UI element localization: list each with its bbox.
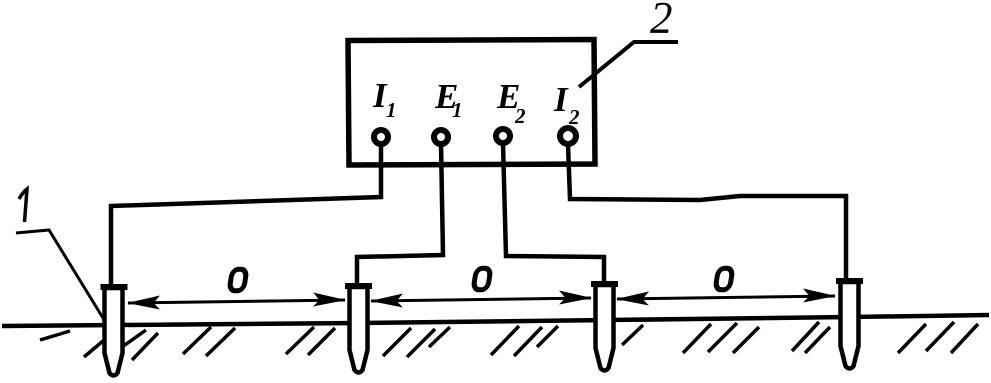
label a (span 2) [473, 268, 491, 290]
wire I2 to electrode 4 [568, 144, 846, 282]
svg-text:1: 1 [386, 98, 397, 122]
svg-text:I: I [553, 80, 569, 119]
terminal label I2 [553, 80, 580, 129]
dimension line a (span 3) [616, 289, 836, 306]
terminal label E1 [434, 77, 463, 122]
svg-text:2: 2 [650, 0, 673, 43]
label 1 [19, 189, 27, 222]
svg-text:2: 2 [514, 104, 526, 128]
electrode 2 [345, 286, 372, 373]
terminal label E2 [496, 77, 526, 128]
label a (span 3) [715, 268, 733, 290]
terminal E2 [496, 129, 510, 143]
terminal I1 [374, 130, 388, 144]
electrode 3 [591, 284, 618, 371]
terminal E1 [434, 130, 448, 144]
svg-text:1: 1 [452, 98, 463, 122]
dimension line a (span 1) [127, 293, 346, 310]
label a (span 1) [229, 269, 247, 291]
instrument box 2 [348, 40, 595, 166]
terminal I2 [560, 128, 576, 144]
wire E2 to electrode 3 [503, 143, 604, 285]
terminal label I1 [372, 76, 397, 122]
dimension line a (span 2) [370, 291, 592, 308]
leader line for label 2 [579, 42, 678, 87]
wire I1 to electrode 1 [111, 144, 381, 288]
electrode 1 [101, 287, 128, 376]
hatching [40, 322, 978, 360]
ground line [2, 315, 989, 326]
electrode 4 [836, 281, 863, 369]
wire E1 to electrode 2 [357, 144, 443, 287]
leader line for label 1 [16, 230, 108, 330]
